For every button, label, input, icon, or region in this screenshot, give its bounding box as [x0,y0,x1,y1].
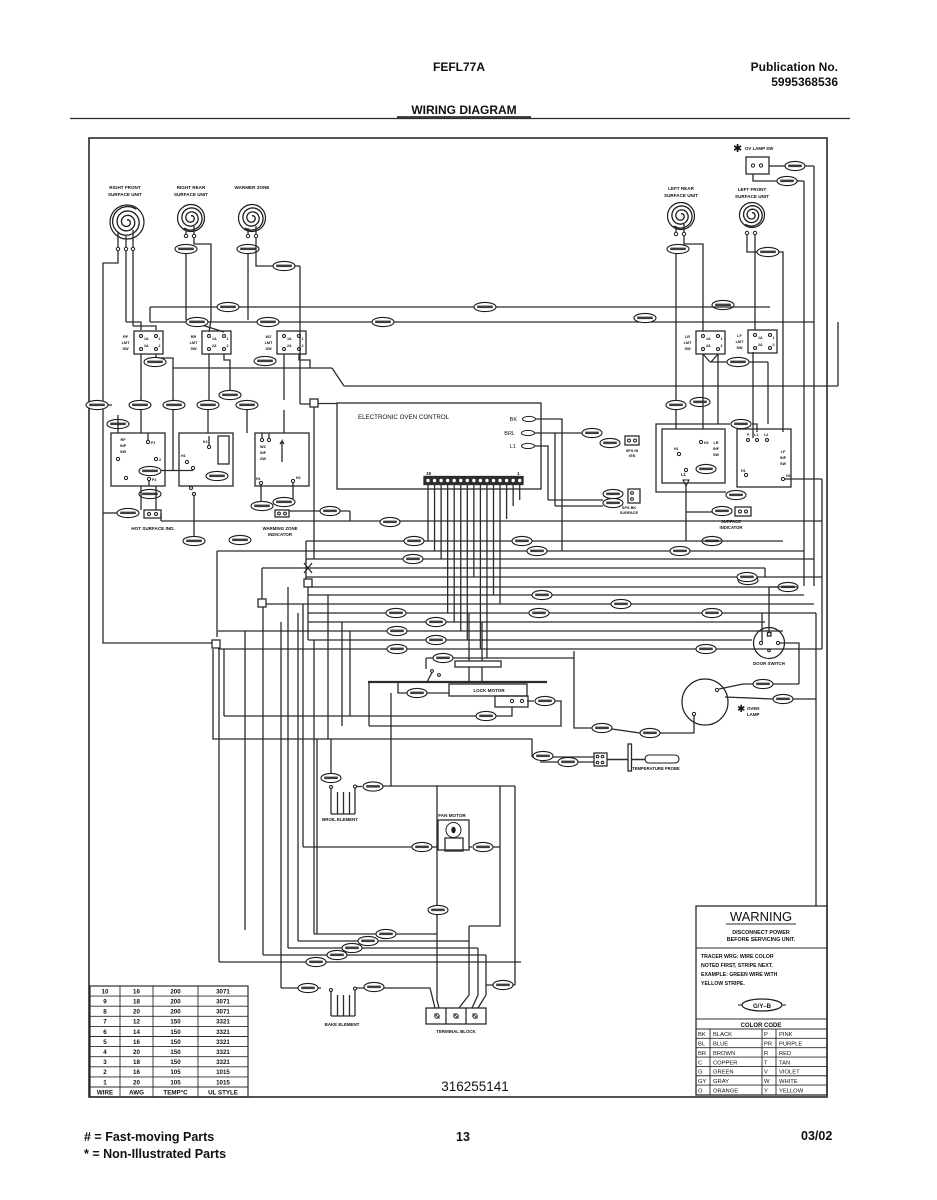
junction square 216,644 [212,640,220,648]
wire staircase y941 [298,940,469,942]
warming zone indicator lamp box [275,510,289,517]
wire lf left terminal to rail 783 [747,235,758,252]
wire label sps hi b [600,438,620,447]
wire label bus307 a [217,302,239,311]
wire label lock top a [426,617,446,626]
wire label sps bk b [603,498,623,507]
wire label below lr lmt [727,357,749,366]
svg-text:ELECTRONIC OVEN CONTROL: ELECTRONIC OVEN CONTROL [358,414,450,421]
tracer example oval [742,999,782,1011]
svg-text:PINK: PINK [779,1032,793,1038]
wire bus y307 long horizontal [150,306,770,308]
wire vertical x328 down [327,595,329,739]
svg-text:SW: SW [684,347,691,351]
svg-text:BR: BR [698,1051,706,1057]
svg-text:2: 2 [227,344,229,348]
wire label below wz lmt [254,356,276,365]
svg-text:✱: ✱ [733,143,742,155]
svg-text:RIGHT FRONT: RIGHT FRONT [109,185,141,190]
svg-text:HOT SURFACE IND.: HOT SURFACE IND. [131,526,174,531]
wire oven lamp bottom left [660,716,694,733]
wire bus y587 [308,586,783,588]
wire rr coil leads [185,228,187,234]
wire right rail 814 [813,166,815,586]
lock motor terminal box [495,696,528,707]
svg-text:150: 150 [170,1059,181,1066]
wire label hot surface ind [117,508,139,517]
wire left column from switches [117,415,119,433]
door switch [754,628,785,659]
svg-text:WARNING: WARNING [730,909,792,924]
svg-text:2A: 2A [144,344,149,348]
wire label bake a [298,983,318,992]
wire label bus307 b [474,302,496,311]
wire staircase drop to terminal 3 [472,948,478,1008]
svg-text:SURFACE UNIT: SURFACE UNIT [664,193,698,198]
wire vertical x245 down [244,631,246,930]
wire sps hi link [555,432,582,434]
svg-text:W: W [764,1079,770,1085]
limit switch LF LMT SW [748,330,777,353]
wire gauge table [90,986,248,1097]
svg-text:H2: H2 [786,474,791,478]
wire bus y631 [218,630,783,632]
wire label bottom g [428,905,448,914]
svg-text:SPS BK: SPS BK [622,506,636,510]
svg-text:1: 1 [227,337,229,341]
svg-text:13: 13 [456,1130,470,1144]
wire rr unit to limit switch [185,253,187,320]
wire label temp probe a [533,751,553,760]
surface switch WZ INF SW box [255,433,309,486]
fan motor outer box [438,820,469,850]
wire label lr top a [666,400,686,409]
svg-text:5: 5 [103,1039,107,1046]
svg-text:WZ: WZ [266,335,273,339]
svg-text:WARMER ZONE: WARMER ZONE [235,185,270,190]
wire label oven lamp c [640,728,660,737]
wire wz right terminal to x300 [256,238,300,266]
svg-text:BAKE ELEMENT: BAKE ELEMENT [325,1022,360,1027]
svg-text:L2: L2 [764,433,768,437]
wire label y541 b [229,535,251,544]
wire EOC pin 14 drop [434,485,436,552]
wire right ends of bus down [764,568,766,577]
svg-text:H1: H1 [674,447,679,451]
svg-text:LMT: LMT [736,340,744,344]
wire lr right terminal down [684,236,703,331]
wire EOC pin 11 drop [453,485,455,623]
wire label row405 d [236,400,258,409]
warmer zone coil [243,208,263,230]
svg-text:150: 150 [170,1039,181,1046]
wire oval line y985 [486,984,515,986]
svg-text:# = Fast-moving Parts: # = Fast-moving Parts [84,1130,214,1144]
wire right rail 822 [821,479,823,649]
junction square 262,603 [258,599,266,607]
EOC terminal strip [424,477,523,485]
svg-text:O: O [698,1088,703,1094]
svg-text:316255141: 316255141 [441,1079,509,1094]
wire label stair b [358,936,378,945]
svg-text:1: 1 [721,337,723,341]
svg-text:P: P [764,1032,768,1038]
lock motor cam posts [468,667,470,681]
wire label stair c [342,943,362,952]
wire vertical x350 down [349,631,351,716]
svg-text:150: 150 [170,1019,181,1026]
wire label bus 396x613 [386,608,406,617]
hot surface indicator lamp box [144,510,161,518]
wire label stair a [376,929,396,938]
wire right end y386 up [837,322,839,386]
svg-text:12: 12 [133,1019,140,1026]
wire lmt to lr inf sw [702,354,704,429]
svg-text:DISCONNECT POWER: DISCONNECT POWER [732,930,790,936]
svg-text:TEMP°C: TEMP°C [163,1090,188,1097]
wire label fan a [412,842,432,851]
svg-text:FEFL77A: FEFL77A [433,60,485,74]
svg-text:INF: INF [780,456,787,460]
svg-text:SURFACE: SURFACE [721,519,741,524]
wire vertical x263 down [262,607,264,955]
wire label bottom f [493,980,513,989]
right front surface unit coil [113,207,140,236]
wire staircase y962 [219,961,521,963]
wire temp probe line [532,756,594,758]
bake element [330,989,333,992]
wire label wz ind c [320,506,340,515]
wire label bus 390x522 [380,517,400,526]
svg-text:105: 105 [170,1069,181,1076]
svg-text:2A: 2A [287,344,292,348]
wire label in rr inf sw [206,471,228,480]
wire label oven lamp a [753,679,773,688]
wire bus y521 long horizontal [161,520,822,522]
left rear surface unit coil [672,206,692,228]
wire bus y613 [308,612,816,614]
surface switch LF INF SW box [737,429,791,487]
svg-text:LEFT REAR: LEFT REAR [668,186,694,191]
svg-text:7: 7 [103,1019,107,1026]
svg-text:LOCK MOTOR: LOCK MOTOR [473,688,505,693]
svg-text:SW: SW [736,346,743,350]
wire lf inf sw h2 to rail [785,478,822,480]
svg-text:200: 200 [170,1009,181,1016]
wire left feed to fan [302,604,304,847]
wire label sps bk a [603,489,623,498]
svg-text:LF: LF [737,334,742,338]
svg-text:SURFACE UNIT: SURFACE UNIT [735,194,769,199]
svg-text:4: 4 [103,1049,107,1056]
spark ignition switch SPS HI IGN [625,436,639,445]
wire staircase drop to terminal 4 [478,955,486,1008]
svg-text:SPS HI: SPS HI [626,449,638,453]
wire y658 drop to lock contact [425,658,427,669]
oven lamp [682,679,728,725]
wire label lock motor b [535,696,555,705]
wire label loop top [731,419,751,428]
wire EOC pin 7 drop [479,485,481,650]
svg-text:3071: 3071 [216,988,230,995]
svg-text:SW: SW [190,347,197,351]
wire EOC pin 6 drop [486,485,488,659]
junction square 314,403 [300,403,310,405]
wire BK from EOC [536,419,563,551]
wire bus y386 long horizontal [344,385,838,387]
svg-text:18: 18 [133,1059,140,1066]
wire wz coil leads [247,228,249,234]
wire EOC pin 13 drop [440,485,442,560]
wire EOC pin 15 drop [427,485,429,542]
wire ov lamp sw lead 2 [753,174,777,181]
svg-text:14: 14 [133,1029,140,1036]
wire EOC pin 8 drop [473,485,475,578]
LR L1 node triangle [683,480,689,486]
wire vertical x288 down [287,587,289,948]
wire door switch right pin [780,643,799,684]
wire label ov lamp sw 2 [777,176,797,185]
svg-text:L1: L1 [510,444,516,450]
svg-text:2A: 2A [758,343,763,347]
surface indicator lamp box [735,507,751,516]
svg-text:INDICATOR: INDICATOR [720,525,743,530]
lock motor lever bar [368,681,547,683]
svg-text:SW: SW [120,450,127,454]
svg-text:LMT: LMT [190,341,198,345]
wire rf coil leads [117,232,119,247]
svg-text:RIGHT REAR: RIGHT REAR [177,185,206,190]
wire EOC pin 3 drop [506,485,508,520]
wire bus y716 long horizontal [224,715,476,717]
svg-text:1A: 1A [212,337,217,341]
svg-text:1A: 1A [758,336,763,340]
wire lock oval down to loop [390,693,392,786]
wire EOC pin 2 drop [512,485,514,507]
wire label lock motor a [407,688,427,697]
wire label lock top c [426,635,446,644]
limit switch RR LMT SW [202,331,231,354]
wire label bus 413x559 [403,554,423,563]
svg-text:LR: LR [685,335,690,339]
wire right rail 804 [803,181,805,586]
wire vertical x298 down [297,613,299,941]
wire lr coil leads [675,226,677,232]
wire lock motor right [527,700,534,702]
wire bus y658 [426,657,574,659]
svg-text:200: 200 [170,999,181,1006]
RR INF SW inner box [218,436,229,464]
wire EOC pin 4 drop [499,485,501,605]
svg-text:R: R [764,1051,768,1057]
wire warming indicator to band [289,510,350,512]
svg-text:GRAY: GRAY [713,1079,729,1085]
svg-text:LR: LR [713,441,718,445]
warning divider [696,947,827,949]
color code header [696,1018,827,1020]
wire bus y649 [218,648,822,650]
wire label stair d [327,950,347,959]
svg-text:1015: 1015 [216,1079,230,1086]
wire v-join below lr lmt [703,354,710,362]
wire bus y368 long horizontal [173,367,332,369]
wire label row395 [219,390,241,399]
wire vertical x317 down [316,739,318,934]
wire label ov lamp sw 1 [785,161,805,170]
svg-text:3071: 3071 [216,999,230,1006]
svg-text:SW: SW [713,453,720,457]
wire below rf lmt sw [140,354,142,400]
svg-text:BROIL ELEMENT: BROIL ELEMENT [322,817,358,822]
wire staircase drop to terminal 1 [437,934,439,1008]
title underline rule [397,116,531,118]
wire label wz ind b [273,497,295,506]
svg-text:H1: H1 [741,469,746,473]
wire label row405 c [197,400,219,409]
wire lf right terminal down [754,235,756,330]
limit switch RF LMT SW [134,331,163,354]
svg-text:Publication No.: Publication No. [751,60,838,74]
svg-text:GY: GY [698,1079,707,1085]
svg-text:1A: 1A [706,337,711,341]
wire label bus322 c2 [372,317,394,326]
wire label lock top e [433,653,453,662]
wire below wz lmt sw [283,354,285,400]
lock motor cam plate [455,661,501,667]
svg-text:18: 18 [133,999,140,1006]
svg-text:1: 1 [159,337,161,341]
wire label temp probe b [558,757,578,766]
svg-text:H2: H2 [704,441,709,445]
svg-text:SW: SW [122,347,129,351]
svg-text:9: 9 [103,999,107,1006]
wire cam feeds from bus [468,613,470,661]
svg-text:LMT: LMT [684,341,692,345]
wire label bus322 b [257,317,279,326]
wire lock motor left loop down [368,682,370,726]
wire label lr inner [696,464,716,473]
svg-text:WIRE: WIRE [97,1090,113,1097]
svg-text:3321: 3321 [216,1049,230,1056]
wire fan loop top [383,785,515,787]
RR INF SW contact below [190,487,193,490]
wire label bus 539x613 [529,608,549,617]
ov lamp switch box [746,157,769,174]
svg-text:VIOLET: VIOLET [779,1070,800,1076]
wire label oven lamp b [773,694,793,703]
wire rr crossover into rr lmt sw [186,320,224,332]
svg-text:H1: H1 [256,477,261,481]
svg-text:SW: SW [260,457,267,461]
wire bus y595 [308,594,804,596]
wire fan motor right [469,846,472,848]
WZ INF SW arrow contact [280,441,282,450]
wire label left405 [86,400,108,409]
svg-text:3321: 3321 [216,1029,230,1036]
right rear surface unit terminals [184,234,187,237]
svg-text:INF: INF [120,444,127,448]
wire loop drop x515 [514,786,516,985]
temperature probe shaft [607,759,645,761]
wire staircase y948 [288,947,478,949]
wire label lock top b [387,626,407,635]
svg-text:20: 20 [133,1079,140,1086]
wire label row405 a [129,400,151,409]
svg-text:ORANGE: ORANGE [713,1088,738,1094]
wire label bus 747x577 [737,572,757,581]
svg-text:3321: 3321 [216,1039,230,1046]
svg-text:✱: ✱ [737,704,745,715]
wire label y541 right [702,536,722,545]
svg-text:1: 1 [773,336,775,340]
svg-text:AWG: AWG [129,1090,144,1097]
wire enclosing loop right switches [656,424,730,492]
svg-text:LEFT FRONT: LEFT FRONT [738,187,767,192]
svg-text:RR: RR [191,335,197,339]
svg-text:LF: LF [781,450,786,454]
wire label RR unit [175,244,197,253]
wire label bus 712x613 [702,608,722,617]
fan motor lower box [445,838,463,851]
lock motor body box [449,684,527,696]
wire lmt rows down to inf boxes [140,410,142,433]
terminal block [426,1008,486,1024]
wire label fan b [473,842,493,851]
svg-text:1A: 1A [287,337,292,341]
wire fan loop right side [469,786,500,926]
wire BRL from EOC [535,433,556,506]
warmer zone terminals [246,234,249,237]
svg-text:INF: INF [260,451,267,455]
svg-text:SURFACE: SURFACE [620,511,639,515]
wire label bus322 a [186,317,208,326]
wire label bus 537x551 [527,546,547,555]
wire bus y640 [308,639,752,641]
wire label lr unit [667,244,689,253]
wire EOC pin 12 drop [447,485,449,614]
svg-text:2: 2 [159,344,161,348]
svg-text:3321: 3321 [216,1059,230,1066]
svg-text:TAN: TAN [779,1060,790,1066]
wire label oven lamp d [592,723,612,732]
svg-text:105: 105 [170,1079,181,1086]
junction square 308,583 [304,579,312,587]
svg-text:L1: L1 [754,433,758,437]
wire sps bk link [548,499,603,501]
svg-text:G/Y–B: G/Y–B [753,1004,772,1010]
wire staircase y934 [314,933,437,935]
svg-text:L1: L1 [681,472,687,477]
wire label lr top b [690,397,710,406]
svg-text:P1: P1 [151,441,155,445]
svg-text:8: 8 [103,1009,107,1016]
wire wz inf sw leads down [260,485,262,502]
svg-text:TERMINAL BLOCK: TERMINAL BLOCK [436,1029,476,1034]
diagram border frame [89,138,827,1097]
wire label bus 680x551 [670,546,690,555]
surface switch LR INF SW box [662,429,725,483]
svg-text:2: 2 [103,1069,107,1076]
left front surface unit terminals [745,231,748,234]
fan motor symbol [446,823,461,838]
wire label lock top d [387,644,407,653]
wire label row405 b [163,400,185,409]
temperature probe bulb [645,755,679,763]
wire vertical x314 down [313,640,315,934]
svg-text:* = Non-Illustrated Parts: * = Non-Illustrated Parts [84,1147,226,1161]
lock motor contact [431,670,434,673]
wire lr unit down [675,253,677,429]
